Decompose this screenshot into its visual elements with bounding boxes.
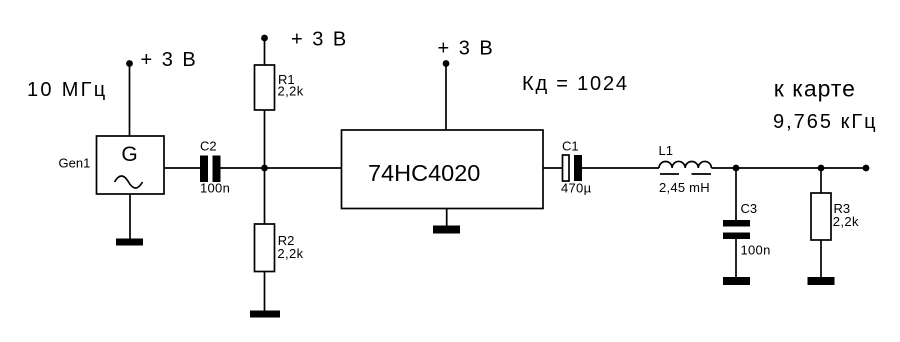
wire Gen1 to C2 bbox=[164, 167, 200, 169]
svg-text:Gen1: Gen1 bbox=[59, 156, 91, 171]
output terminal dot bbox=[863, 165, 870, 172]
svg-text:9,765 кГц: 9,765 кГц bbox=[773, 111, 878, 133]
wire C3 to ground bbox=[735, 239, 737, 277]
wire R3 to ground bbox=[820, 240, 822, 277]
svg-text:470µ: 470µ bbox=[561, 181, 592, 196]
ground R2 bbox=[250, 311, 280, 318]
wire R2 to ground bbox=[264, 272, 266, 311]
capacitor C2 bbox=[200, 139, 230, 196]
wire node to C3 bbox=[735, 168, 737, 220]
svg-text:Кд = 1024: Кд = 1024 bbox=[522, 73, 629, 95]
capacitor C3 bbox=[723, 201, 771, 258]
op IC U1 74HC4020 bbox=[342, 130, 544, 209]
ground Gen1 bbox=[116, 239, 143, 246]
svg-text:+ 3 В: + 3 В bbox=[141, 49, 198, 71]
svg-text:100n: 100n bbox=[200, 181, 230, 196]
junction node R3 bbox=[818, 165, 825, 172]
junction node C3 bbox=[733, 165, 740, 172]
wire +3V to R1 bbox=[264, 38, 266, 65]
svg-text:2,2k: 2,2k bbox=[277, 246, 303, 261]
svg-text:C2: C2 bbox=[200, 139, 217, 154]
wire +3V to Gen1 bbox=[129, 64, 131, 137]
ground R3 bbox=[808, 277, 835, 285]
wire +3V to IC bbox=[445, 64, 447, 131]
svg-text:100n: 100n bbox=[741, 243, 771, 258]
resistor R3 bbox=[811, 193, 859, 240]
inductor L1 bbox=[659, 143, 712, 195]
power +3V node IC bbox=[438, 38, 495, 67]
ground IC bbox=[433, 226, 460, 234]
svg-text:C1: C1 bbox=[562, 139, 579, 154]
wire R1 to node A bbox=[264, 110, 266, 168]
wire node A to R2 bbox=[264, 168, 266, 224]
svg-text:74HC4020: 74HC4020 bbox=[368, 160, 480, 186]
power +3V node R1 bbox=[261, 29, 348, 51]
resistor R2 bbox=[255, 224, 304, 272]
wire IC to C1 bbox=[543, 167, 563, 169]
svg-text:10 МГц: 10 МГц bbox=[27, 79, 108, 101]
wire L1 to output bbox=[711, 167, 866, 169]
capacitor C1 bbox=[561, 139, 592, 196]
power +3V node Gen1 bbox=[126, 49, 198, 71]
wire IC to ground bbox=[446, 209, 448, 226]
wire Gen1 to ground bbox=[129, 194, 131, 239]
wire node to R3 bbox=[820, 168, 822, 193]
svg-text:2,2k: 2,2k bbox=[278, 84, 304, 99]
svg-text:+ 3 В: + 3 В bbox=[291, 29, 348, 51]
svg-text:2,2k: 2,2k bbox=[833, 214, 859, 229]
svg-text:к карте: к карте bbox=[774, 76, 856, 102]
svg-text:L1: L1 bbox=[659, 143, 673, 158]
generator Gen1 bbox=[59, 136, 165, 194]
wire C1 to L1 bbox=[582, 167, 659, 169]
svg-text:2,45 mH: 2,45 mH bbox=[659, 180, 710, 195]
node junction A bbox=[261, 165, 268, 172]
resistor R1 bbox=[255, 65, 304, 110]
svg-text:C3: C3 bbox=[741, 201, 758, 216]
svg-text:G: G bbox=[121, 143, 137, 166]
ground C3 bbox=[723, 277, 750, 285]
wire C2 to IC bbox=[221, 167, 342, 169]
svg-text:+ 3 В: + 3 В bbox=[438, 38, 495, 60]
